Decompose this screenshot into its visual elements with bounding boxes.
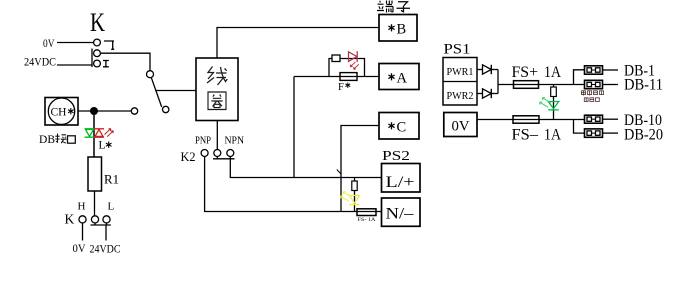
LED red in F* branch [349,52,357,62]
wire branch down to DB-20 [574,120,585,134]
svg-text:C: C [397,120,407,136]
svg-text:0V: 0V [73,241,86,255]
svg-text:K: K [65,212,75,227]
wire R1 to bottom terminal [94,191,96,216]
jumper J3 (DB-10) [585,115,603,123]
box PS1 PWR [443,58,477,106]
svg-text:R1: R1 [104,173,119,187]
wire 24VDC to bar [57,64,92,66]
svg-text:A: A [397,71,408,87]
wire diode bus [497,70,499,94]
wire F* parallel branch [329,59,365,77]
wire vertical bar at terminals [91,49,93,68]
wire PS2 indicator branch [354,178,356,212]
svg-text:24VDC: 24VDC [90,242,121,256]
diode D1 [483,65,492,74]
svg-text:FS+: FS+ [512,64,539,81]
fuse F* [340,73,357,81]
svg-text:K: K [90,8,105,37]
sensor CH asterisk [68,108,74,114]
svg-text:DB-20: DB-20 [624,127,663,144]
svg-text:PS1: PS1 [444,42,471,58]
box L/+ [382,164,421,193]
svg-text:N/–: N/– [386,206,415,223]
glyph 口 [68,136,76,143]
svg-text:L/+: L/+ [386,174,415,191]
wire J3 to DB-10 [603,118,619,120]
box *B [379,15,417,42]
terminal circle H (bottom) [94,60,101,67]
diode D2 [483,89,492,98]
wire CH to contact [78,110,131,112]
fuse N line [357,209,376,216]
wire corner nick [337,170,341,175]
svg-text:PWR1: PWR1 [447,67,474,78]
wire H terminal to 0V [82,223,84,241]
wire *A line left vertical down to L net [293,77,295,178]
glyph 线 [207,67,227,86]
wire PNP terminal down and right (N net) [205,157,382,212]
svg-text:1A: 1A [544,127,561,144]
wire J1 to DB-1 [603,69,619,71]
wire main *A line [294,76,379,78]
box *C [379,113,419,140]
wire D1 to bus [491,69,498,71]
glyph 圈 [208,92,226,110]
svg-text:H: H [78,201,86,213]
wire coil top to *B [217,28,379,59]
K2 terminal circle middle [214,150,221,157]
svg-text:PWR2: PWR2 [447,91,474,102]
box N/- [382,198,421,226]
terminal circle common (middle) [94,50,101,57]
LED yellow PS2 [349,196,359,204]
jumper J1 (DB-1) [585,66,603,74]
svg-text:0V: 0V [452,119,470,135]
rotated label L [104,41,114,49]
wire 0V to terminal L [57,42,94,44]
wire J2 to DB-11 [603,84,619,86]
LED L* red rails [94,129,104,137]
wire NPN terminal down and right to L/+ [230,157,381,178]
coil box 线圈 [196,58,238,121]
label *A [388,73,394,80]
svg-text:L: L [108,201,115,213]
svg-text:PNP: PNP [195,136,211,147]
svg-text:B: B [397,22,407,38]
box 0V [444,113,477,137]
terminal circle L (top) [94,39,101,46]
junction dot at CH output [90,107,98,115]
svg-text:24VDC: 24VDC [24,55,56,69]
K2 terminal circle NPN [227,150,234,157]
svg-text:K2: K2 [181,149,196,164]
wire PWR1 to diode [477,69,483,71]
svg-text:F: F [338,82,344,93]
switch contact circle (left, from CH) [131,108,137,114]
wire shorting bar mid-L terminals [91,223,111,241]
wire PWR2 to diode [477,93,483,95]
LED L* red triangle (up) [95,130,103,137]
resistor in F* branch [332,55,340,62]
LED L* emission arrows [105,129,114,137]
svg-text:DB: DB [39,134,55,146]
wire branch up to DB-1 [574,70,585,85]
wire FS- line [477,119,585,121]
LED yellow emission arrows [340,192,351,201]
svg-text:FS–: FS– [512,127,540,144]
switch lever [151,77,162,107]
resistor R1 [88,157,102,191]
resistor in LED branch [551,87,557,97]
terminal circle mid bottom [91,216,98,223]
tiny red label 电源设置 / 短路槽 [582,90,604,101]
wire coil bottom to K2 middle terminal [216,121,218,150]
rotated label H [103,61,109,67]
jumper J4 (DB-20) [585,129,603,137]
wire *C to N net vertical [341,126,379,212]
wire shorting bar under K2 mid+NPN [213,157,235,159]
wire junction down through LED to R1 [93,111,95,157]
switch contact circle (right) [163,106,169,112]
fuse FS+ [514,81,539,89]
switch pivot circle [147,71,154,78]
svg-text:NPN: NPN [225,136,245,147]
svg-text:FS- 1A: FS- 1A [358,218,376,223]
svg-text:L: L [99,140,106,152]
sensor CH* square [45,98,78,126]
wire lever to coil box [155,90,196,92]
label *C [388,122,394,129]
svg-text:PS2: PS2 [382,149,410,164]
LED F* emission arrows [350,62,359,70]
svg-text:1A: 1A [544,64,561,81]
wire common terminal to switch pivot [100,53,150,70]
wire green LED branch [553,85,555,120]
fuse FS- [513,116,539,123]
wire FS+ line [498,84,585,86]
terminal circle L bottom [103,216,110,223]
jumper J2 (DB-11) [585,80,603,88]
svg-text:CH: CH [51,107,67,119]
LED L* green triangle (down) [86,130,94,137]
resistor in PS2 branch [352,181,357,191]
K2 terminal circle PNP [201,150,208,157]
label 端子 [377,1,393,13]
glyph 接 [55,134,66,144]
wire J4 to DB-20 [603,132,619,134]
LED green [548,102,559,109]
LED L* bicolor: green rails [85,129,95,137]
divider PS1 box [443,81,477,83]
LED green emission arrows [540,98,551,108]
svg-text:DB-11: DB-11 [624,77,663,94]
label *B [388,24,394,31]
sensor CH* circle [48,98,74,124]
box *A [379,64,419,90]
terminal circle H bottom [79,216,86,223]
wire D2 to bus [491,93,498,95]
svg-text:0V: 0V [43,38,55,50]
